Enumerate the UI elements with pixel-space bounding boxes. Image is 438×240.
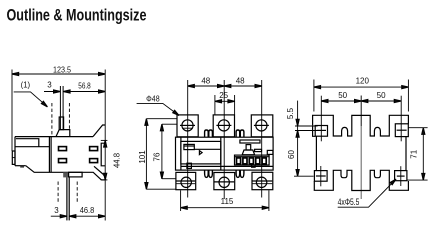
- inner panel: [16, 139, 39, 147]
- dim 120: [313, 80, 315, 112]
- leader phi48: [137, 103, 179, 115]
- chamfer: [93, 125, 105, 137]
- contact block: [235, 155, 270, 165]
- dim 46.8: [69, 215, 105, 217]
- bottom-left small square: [187, 163, 192, 168]
- dim 60: [296, 170, 299, 177]
- dim 101: [146, 118, 176, 120]
- center axis: [360, 96, 362, 127]
- svg-text:3: 3: [47, 80, 52, 89]
- dim 5.5: [295, 125, 318, 127]
- top screws: [182, 120, 193, 131]
- step below bottom: [63, 172, 68, 177]
- dim 115: [180, 190, 182, 211]
- svg-text:120: 120: [356, 77, 370, 86]
- hidden dashed lines top: [51, 103, 53, 137]
- dim 50 50: [321, 100, 401, 102]
- top arch clamps: [205, 130, 209, 137]
- svg-text:Φ48: Φ48: [146, 95, 160, 104]
- tab TL: [315, 126, 327, 137]
- body top edge: [15, 136, 93, 138]
- house: [242, 150, 254, 155]
- extension/body right line: [104, 70, 106, 221]
- bottom pin: [66, 177, 68, 220]
- svg-text:3: 3: [54, 206, 59, 215]
- hidden dashed bottom: [57, 182, 59, 203]
- svg-text:48: 48: [201, 77, 210, 86]
- dim 76: [162, 123, 177, 125]
- svg-text:(1): (1): [21, 81, 31, 90]
- svg-text:56.8: 56.8: [78, 82, 91, 91]
- bottom right diagonal: [94, 166, 105, 176]
- svg-text:76: 76: [152, 152, 161, 161]
- svg-text:46.8: 46.8: [80, 206, 95, 215]
- bottom terminal squares: [176, 172, 196, 189]
- bottom arch clamps: [205, 170, 209, 177]
- svg-text:Outline & Mountingsize: Outline & Mountingsize: [7, 7, 147, 25]
- dim 44.8: [101, 139, 108, 141]
- extension line left: [11, 70, 13, 152]
- body: [176, 137, 274, 170]
- dim 71: [408, 127, 427, 129]
- svg-text:25: 25: [219, 91, 228, 100]
- right bracket: [101, 143, 105, 166]
- top bump: [56, 130, 70, 137]
- top terminal squares: [177, 115, 198, 137]
- svg-text:101: 101: [138, 150, 147, 164]
- svg-text:115: 115: [221, 197, 234, 206]
- left profile edge to tab bottom: [313, 125, 316, 136]
- svg-text:5.5: 5.5: [286, 107, 295, 119]
- left edge + protrusion: [14, 137, 16, 166]
- top bar: [240, 140, 260, 143]
- svg-text:50: 50: [338, 91, 347, 100]
- tab BL: [314, 171, 327, 182]
- inner tab: [184, 144, 194, 149]
- leader 4xPhi5.5: [338, 180, 396, 208]
- chimney: [246, 145, 251, 150]
- inner shelf line: [194, 148, 221, 150]
- inner horizontal: [15, 146, 49, 148]
- tab BR: [395, 171, 407, 181]
- svg-text:48: 48: [236, 77, 245, 86]
- top profile: [313, 115, 409, 136]
- axis lines: [187, 80, 189, 198]
- dim 56.8: [63, 91, 105, 93]
- chimney: [59, 117, 63, 130]
- dim 123.5: [12, 73, 105, 75]
- svg-text:71: 71: [410, 149, 419, 158]
- side edges between tabs: [315, 136, 317, 170]
- bottom profile: [314, 170, 408, 190]
- divider: [48, 137, 50, 173]
- rod top: [59, 86, 61, 130]
- svg-text:60: 60: [287, 150, 296, 159]
- dim 48 48: [188, 85, 262, 87]
- pointer: [199, 151, 202, 155]
- dim 3 bottom: [51, 215, 67, 217]
- tab TR: [395, 124, 408, 137]
- feet: [252, 165, 256, 167]
- svg-text:4xΦ5.5: 4xΦ5.5: [338, 197, 360, 208]
- svg-text:123.5: 123.5: [53, 65, 71, 74]
- bottom screws: [181, 177, 191, 187]
- leader (1): [14, 92, 47, 106]
- inner mechanism box: [181, 141, 221, 164]
- side bars: [255, 149, 262, 151]
- dim 25: [214, 95, 216, 115]
- terminal slots: [59, 147, 98, 163]
- svg-text:50: 50: [377, 91, 386, 100]
- bottom left: [15, 165, 26, 167]
- svg-text:44.8: 44.8: [113, 152, 122, 168]
